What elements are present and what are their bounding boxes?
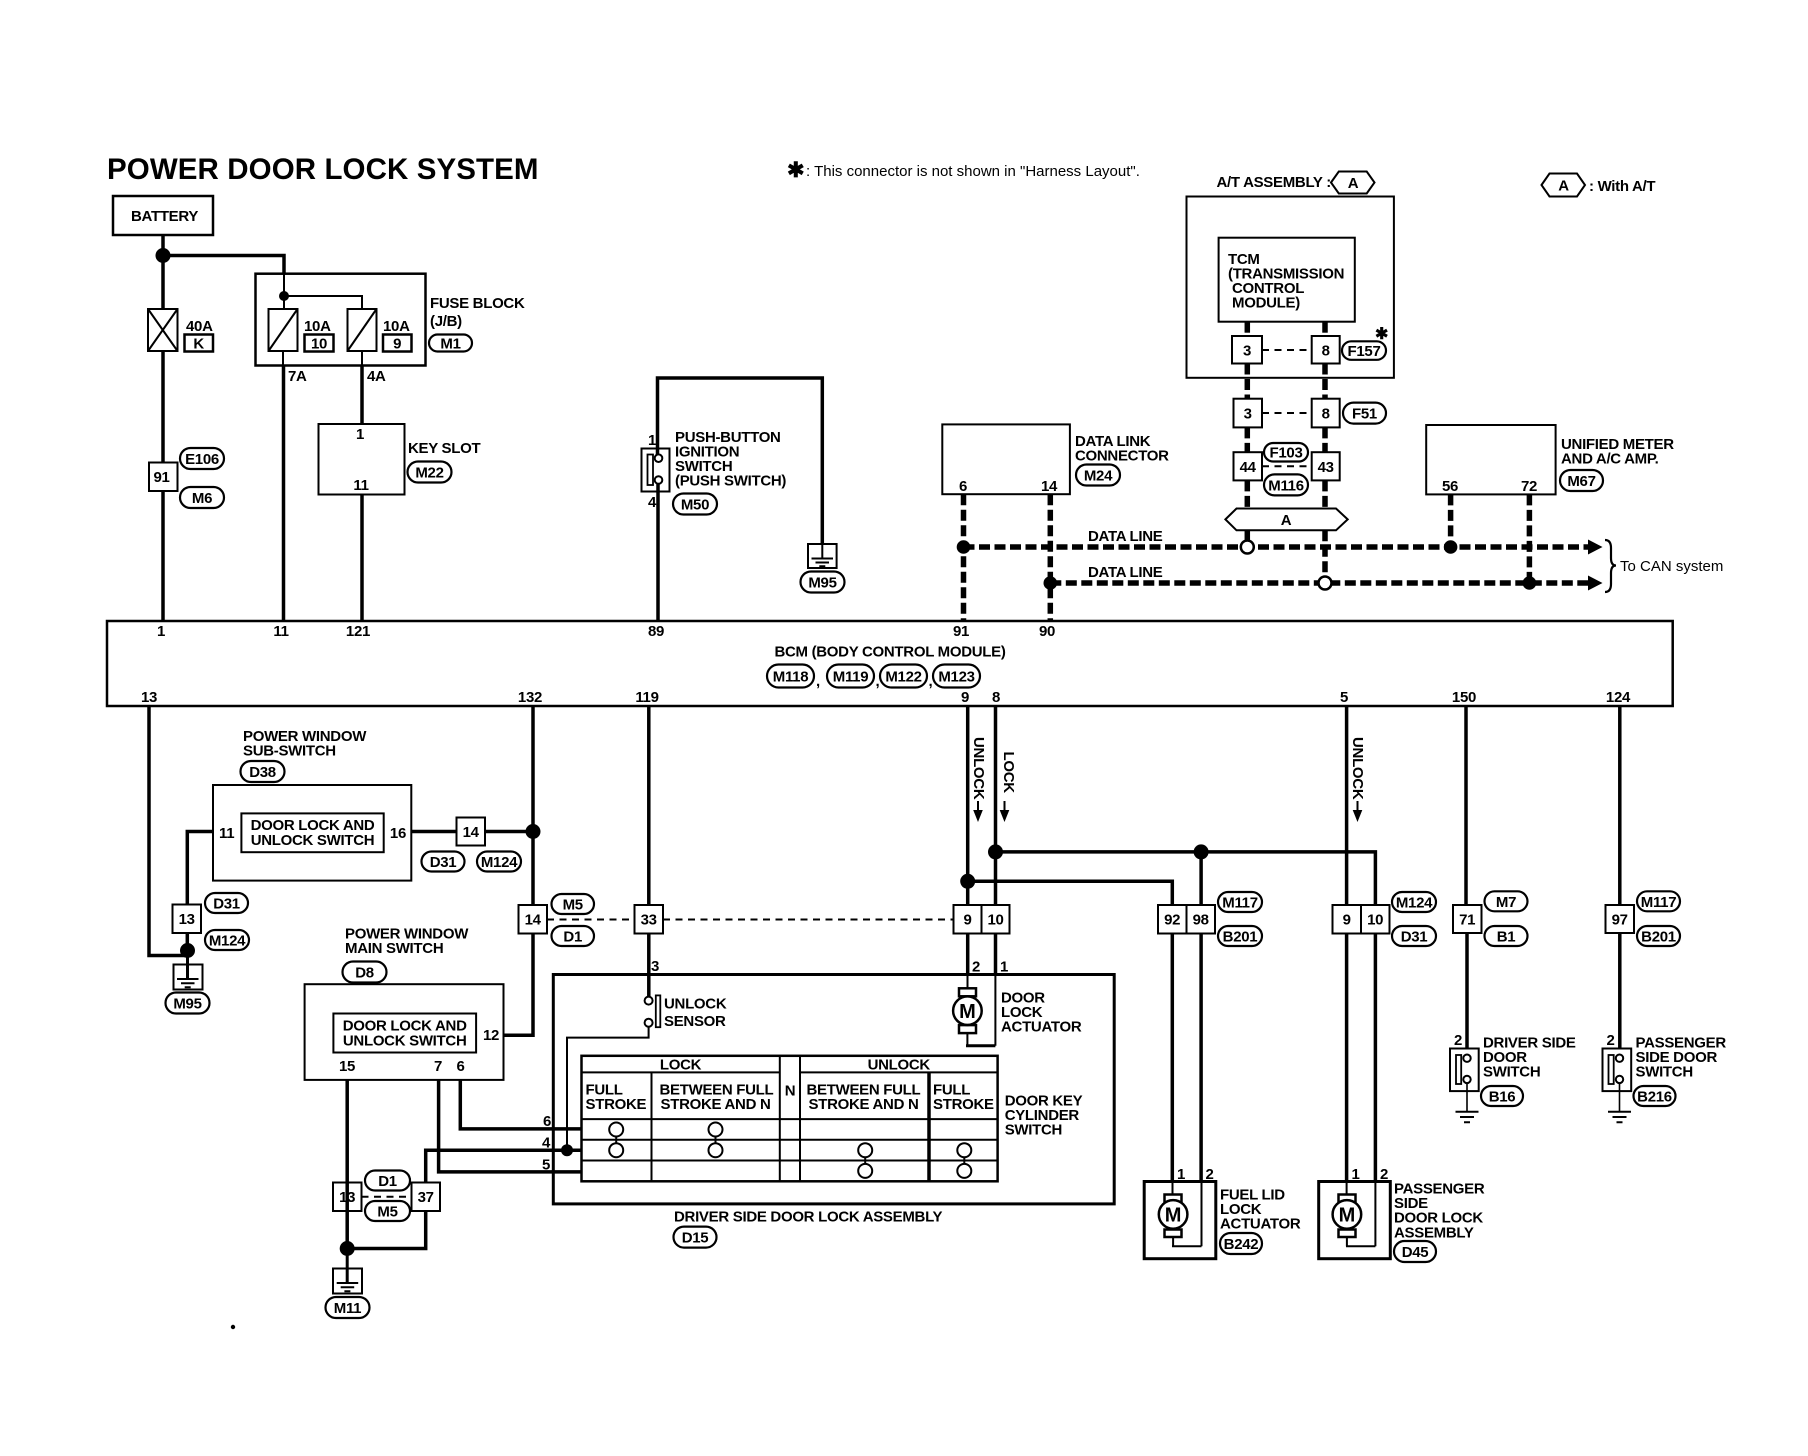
svg-text:B1: B1 xyxy=(1497,929,1516,946)
wire BCM 13 down xyxy=(149,706,188,956)
wire main switch 6 to line 6 xyxy=(460,1080,581,1129)
ground M95 push switch xyxy=(801,544,845,593)
svg-text:STROKE: STROKE xyxy=(933,1096,994,1113)
wire DLC pin 14 to data line and BCM 90 xyxy=(1048,494,1054,621)
passenger side door lock assembly box xyxy=(1319,1182,1391,1259)
svg-text:ASSEMBLY: ASSEMBLY xyxy=(1394,1224,1474,1241)
svg-text:33: 33 xyxy=(641,912,657,929)
wire 97 to passenger door switch xyxy=(1618,933,1622,1049)
connector 91 E106 M6 xyxy=(149,448,224,508)
label POWER WINDOW SUB-SWITCH D38 xyxy=(241,728,368,782)
svg-text:4A: 4A xyxy=(367,368,386,385)
svg-text:8: 8 xyxy=(1322,406,1330,423)
wire 33 to unlock sensor pin 3 xyxy=(647,934,651,997)
hexagon A big xyxy=(1225,509,1347,531)
svg-text:M6: M6 xyxy=(192,490,212,507)
door key cylinder switch table xyxy=(582,1056,998,1182)
svg-text:BATTERY: BATTERY xyxy=(131,208,198,225)
wire 37 down to ground junction xyxy=(347,1211,426,1249)
svg-text:M124: M124 xyxy=(1396,895,1433,912)
unlock sensor xyxy=(645,995,727,1030)
svg-text:B201: B201 xyxy=(1223,929,1258,946)
svg-text:M5: M5 xyxy=(563,897,583,914)
data line lower xyxy=(1050,580,1589,586)
node ground junction left xyxy=(180,943,195,958)
svg-text:M: M xyxy=(1339,1205,1356,1227)
svg-text:M116: M116 xyxy=(1268,477,1304,494)
svg-text:5: 5 xyxy=(1340,689,1348,706)
svg-text:D8: D8 xyxy=(355,965,374,982)
svg-text:BCM (BODY CONTROL MODULE): BCM (BODY CONTROL MODULE) xyxy=(774,644,1005,661)
data link connector box M24 xyxy=(942,424,1169,495)
wire F51-3 to 44 xyxy=(1245,427,1251,452)
svg-text:✱: ✱ xyxy=(1375,326,1388,343)
svg-text:D1: D1 xyxy=(378,1173,397,1190)
svg-text:9: 9 xyxy=(393,336,401,353)
wire fuse2 internal xyxy=(361,351,363,366)
fuse 10A 10 xyxy=(269,309,334,353)
svg-text:F51: F51 xyxy=(1352,406,1377,423)
svg-text:M1: M1 xyxy=(440,336,460,353)
wire F51-8 to 43 xyxy=(1322,427,1328,452)
svg-text:D38: D38 xyxy=(249,764,276,781)
svg-text:40A: 40A xyxy=(186,318,213,335)
svg-text:12: 12 xyxy=(483,1027,499,1044)
svg-text:K: K xyxy=(193,336,204,353)
svg-text:AND A/C AMP.: AND A/C AMP. xyxy=(1561,451,1659,468)
ground M11 xyxy=(326,1249,370,1319)
wire 92 down to fuel lid 1 xyxy=(1171,934,1175,1182)
svg-text:9: 9 xyxy=(961,689,969,706)
wire TCM pin3 to F157 xyxy=(1245,322,1251,336)
svg-text:M24: M24 xyxy=(1084,468,1113,485)
svg-text:N: N xyxy=(785,1083,796,1100)
svg-text:STROKE AND N: STROKE AND N xyxy=(809,1096,919,1113)
node battery junction xyxy=(156,248,171,263)
connector 13 37 D1 M5 bottom xyxy=(333,1171,440,1222)
wire dashed 33 to 9 xyxy=(663,919,954,921)
connector 97 M117 B201 xyxy=(1606,891,1681,946)
wire sub-switch 11 to ground junction xyxy=(187,832,213,905)
svg-text:DATA LINE: DATA LINE xyxy=(1088,564,1163,581)
wire hexagon to lower data line xyxy=(1322,530,1328,580)
svg-text:: This connector is not shown: : This connector is not shown in "Harnes… xyxy=(806,163,1140,180)
label FUSE BLOCK (J/B) M1 xyxy=(429,295,525,353)
wire F157-3 to F51-3 xyxy=(1245,364,1251,399)
svg-text:B242: B242 xyxy=(1224,1236,1259,1253)
svg-text:10: 10 xyxy=(1367,912,1383,929)
svg-text:B201: B201 xyxy=(1641,929,1676,946)
svg-text:150: 150 xyxy=(1452,689,1476,706)
svg-text:ACTUATOR: ACTUATOR xyxy=(1001,1019,1082,1036)
node dot fuel lid 98 junction xyxy=(1194,844,1209,859)
wire TCM pin8 to F157 xyxy=(1322,322,1328,336)
label FUEL LID LOCK ACTUATOR B242 xyxy=(1220,1187,1301,1255)
svg-text:D31: D31 xyxy=(430,854,457,871)
svg-text:11: 11 xyxy=(219,825,234,842)
svg-text:D31: D31 xyxy=(1401,929,1428,946)
svg-text:56: 56 xyxy=(1442,478,1458,495)
wire 7A to BCM pin 11 xyxy=(282,366,286,622)
table contact circles lock between xyxy=(709,1123,723,1158)
svg-text:121: 121 xyxy=(346,623,370,640)
wire main switch 7 to line 5 xyxy=(439,1080,582,1172)
wire meter 72 to lower data line xyxy=(1527,494,1533,580)
wire pin8 dot to passenger 10 xyxy=(996,852,1376,905)
svg-text:,: , xyxy=(929,673,933,690)
svg-text:MODULE): MODULE) xyxy=(1232,295,1300,312)
svg-text:3: 3 xyxy=(1244,406,1252,423)
svg-text:(PUSH SWITCH): (PUSH SWITCH) xyxy=(675,473,786,490)
wire 14 connector to BCM132 wire xyxy=(485,830,533,834)
svg-text:M117: M117 xyxy=(1641,894,1677,911)
svg-text:14: 14 xyxy=(463,824,480,841)
arrow unlock pin5 xyxy=(1357,801,1359,811)
wire pin9 dot to 92 xyxy=(968,881,1173,905)
svg-text:(J/B): (J/B) xyxy=(430,313,462,330)
svg-text:UNLOCK: UNLOCK xyxy=(970,737,987,800)
node dot on pin9 wire xyxy=(960,874,975,889)
svg-text:37: 37 xyxy=(418,1189,434,1206)
wire fuse block internal feed xyxy=(284,274,362,309)
wire BCM 132 down xyxy=(531,706,535,905)
wire push switch to BCM pin 89 xyxy=(656,484,660,621)
svg-text:7: 7 xyxy=(434,1058,442,1075)
wire BCM 9 unlock down xyxy=(966,706,970,905)
fuse 10A 9 xyxy=(348,309,412,353)
wire main switch 12 to BCM132 wire xyxy=(504,934,534,1036)
wire passenger 10 down xyxy=(1374,934,1378,1182)
ground M95 left xyxy=(166,951,210,1014)
connector F51 row boxes 3 8 xyxy=(1234,399,1387,428)
svg-text:1: 1 xyxy=(1000,959,1008,976)
label DOOR KEY CYLINDER SWITCH xyxy=(1005,1093,1083,1139)
connector 14 D31 M124 xyxy=(422,818,522,872)
svg-text:15: 15 xyxy=(339,1058,355,1075)
table contact circles lock full stroke xyxy=(609,1123,623,1158)
node ground junction M11 xyxy=(340,1241,355,1256)
svg-text:DATA LINE: DATA LINE xyxy=(1088,528,1163,545)
wire battery down xyxy=(161,235,165,309)
connector 14 M5 D1 mid xyxy=(519,894,595,946)
svg-text:M22: M22 xyxy=(415,465,443,482)
svg-text:71: 71 xyxy=(1459,912,1475,929)
connector 9 10 driver xyxy=(954,905,1010,934)
svg-text:M11: M11 xyxy=(334,1300,361,1317)
svg-text:2: 2 xyxy=(972,959,980,976)
svg-text:91: 91 xyxy=(953,623,969,640)
svg-text:44: 44 xyxy=(1240,459,1257,476)
wire 44 to hexagon xyxy=(1245,480,1251,508)
svg-text:1: 1 xyxy=(157,623,165,640)
svg-text:LOCK: LOCK xyxy=(1000,752,1017,794)
svg-text:10: 10 xyxy=(311,336,327,353)
svg-text:1: 1 xyxy=(648,432,656,449)
svg-text:A: A xyxy=(1558,178,1569,195)
wire sub-switch 16 to 14 connector xyxy=(411,830,456,834)
connector 9 10 passenger M124 D31 xyxy=(1333,892,1437,946)
svg-text:16: 16 xyxy=(390,825,406,842)
label DRIVER SIDE DOOR LOCK ASSEMBLY D15 xyxy=(674,1209,943,1248)
wire fuse1 internal xyxy=(282,351,284,366)
svg-text:98: 98 xyxy=(1193,912,1209,929)
svg-text:M117: M117 xyxy=(1222,895,1258,912)
svg-text:F103: F103 xyxy=(1270,445,1303,462)
svg-text:M50: M50 xyxy=(681,497,709,514)
connector F157 row boxes 3 8 xyxy=(1232,326,1388,364)
battery BATTERY xyxy=(113,196,213,235)
power window sub-switch box xyxy=(213,785,411,881)
svg-text:SWITCH: SWITCH xyxy=(1483,1064,1540,1081)
svg-text:SUB-SWITCH: SUB-SWITCH xyxy=(243,743,336,760)
wire 9 to actuator pin2 xyxy=(966,934,970,975)
wire BCM 150 down xyxy=(1464,706,1468,905)
key slot box M22 xyxy=(319,424,481,495)
label POWER WINDOW MAIN SWITCH D8 xyxy=(343,926,470,983)
svg-text:CONNECTOR: CONNECTOR xyxy=(1075,448,1169,465)
svg-text:6: 6 xyxy=(959,478,967,495)
svg-text:M123: M123 xyxy=(938,669,974,686)
svg-text:10A: 10A xyxy=(383,318,410,335)
node dot 72 on lower line xyxy=(1523,576,1537,590)
svg-text:14: 14 xyxy=(1041,478,1058,495)
svg-text:D1: D1 xyxy=(563,929,582,946)
svg-text:DRIVER SIDE DOOR LOCK ASSEMBLY: DRIVER SIDE DOOR LOCK ASSEMBLY xyxy=(674,1209,943,1226)
svg-text:6: 6 xyxy=(456,1058,464,1075)
sub-switch inner door lock and unlock switch xyxy=(241,813,383,852)
svg-text:4: 4 xyxy=(542,1135,551,1152)
svg-text:STROKE AND N: STROKE AND N xyxy=(661,1096,771,1113)
svg-text:M119: M119 xyxy=(833,669,869,686)
connector 33 xyxy=(635,905,664,934)
svg-text:D15: D15 xyxy=(682,1230,709,1247)
svg-text:124: 124 xyxy=(1606,689,1631,706)
svg-text:13: 13 xyxy=(141,689,157,706)
svg-text:D31: D31 xyxy=(213,896,240,913)
svg-text:UNLOCK: UNLOCK xyxy=(1349,737,1366,800)
svg-text:132: 132 xyxy=(518,689,542,706)
svg-text:119: 119 xyxy=(635,689,658,706)
svg-text:,: , xyxy=(876,673,880,690)
svg-text:M122: M122 xyxy=(885,669,921,686)
svg-text:3: 3 xyxy=(1243,343,1251,360)
svg-text:F157: F157 xyxy=(1348,343,1381,360)
svg-text:D45: D45 xyxy=(1402,1244,1429,1261)
svg-text:9: 9 xyxy=(1343,912,1351,929)
svg-text:FUSE BLOCK: FUSE BLOCK xyxy=(430,295,525,312)
svg-text:M95: M95 xyxy=(173,996,201,1013)
svg-text:8: 8 xyxy=(1322,343,1330,360)
wire F157-8 to F51-8 xyxy=(1322,364,1328,399)
node dot 56 on upper line xyxy=(1444,540,1458,554)
svg-text:10: 10 xyxy=(987,912,1003,929)
passenger side door switch B216 xyxy=(1603,1035,1727,1123)
wire DLC pin 6 to data line and BCM 91 xyxy=(961,494,967,621)
push-button ignition switch M50 xyxy=(642,429,787,515)
wire BCM 5 unlock down xyxy=(1345,706,1349,905)
svg-text:UNLOCK SWITCH: UNLOCK SWITCH xyxy=(251,832,375,849)
svg-text:ACTUATOR: ACTUATOR xyxy=(1220,1216,1301,1233)
wire dashed 14 to 33 xyxy=(547,919,635,921)
svg-text:1: 1 xyxy=(356,426,364,443)
TCM box xyxy=(1219,238,1355,322)
wire 10 to actuator pin1 xyxy=(994,934,998,975)
svg-text:M5: M5 xyxy=(377,1204,397,1221)
svg-text:2: 2 xyxy=(1606,1032,1614,1049)
wire 98 down to fuel lid 2 xyxy=(1199,934,1203,1182)
svg-text:,: , xyxy=(816,673,820,690)
svg-text:9: 9 xyxy=(963,912,971,929)
wire BCM 119 down xyxy=(647,706,651,905)
fuse block J/B box xyxy=(256,274,426,366)
svg-text:MAIN SWITCH: MAIN SWITCH xyxy=(345,940,443,957)
svg-text:2: 2 xyxy=(1454,1032,1462,1049)
arrow upper data line xyxy=(1588,540,1603,555)
svg-text:7A: 7A xyxy=(288,368,307,385)
legend hexagon A : With A/T xyxy=(1542,174,1656,197)
wire 37 connector to line 4 xyxy=(426,1150,582,1182)
node junction on line 4 xyxy=(561,1144,573,1156)
BCM body control module bar xyxy=(107,621,1673,706)
wire dot to 98 xyxy=(1199,852,1203,905)
svg-text:SWITCH: SWITCH xyxy=(1636,1064,1693,1081)
label A/T ASSEMBLY hexagon A xyxy=(1217,172,1375,194)
svg-text:11: 11 xyxy=(353,477,368,494)
svg-text:43: 43 xyxy=(1318,459,1334,476)
wire hexagon to upper data line xyxy=(1245,530,1251,544)
svg-text:M67: M67 xyxy=(1567,473,1595,490)
svg-text:E106: E106 xyxy=(185,451,219,468)
node dot DLC6 on upper line xyxy=(957,540,971,554)
svg-text:M124: M124 xyxy=(209,933,246,950)
node junction on BCM132 wire xyxy=(526,824,541,839)
power window main switch box xyxy=(305,984,504,1080)
svg-text:3: 3 xyxy=(651,958,659,975)
svg-text:M: M xyxy=(959,1001,976,1023)
node dot on pin8 wire xyxy=(988,844,1003,859)
wire BCM 8 lock down xyxy=(994,706,998,905)
wire 13 connector to ground junction xyxy=(186,933,190,956)
svg-text:8: 8 xyxy=(992,689,1000,706)
fuse 40A K xyxy=(148,309,213,353)
stray period mark xyxy=(231,1325,235,1329)
wire meter 56 to upper data line xyxy=(1448,494,1454,544)
svg-text:SWITCH: SWITCH xyxy=(1005,1122,1062,1139)
svg-text:92: 92 xyxy=(1164,912,1180,929)
connector ovals M118 M119 M122 M123 xyxy=(767,665,980,691)
svg-text:To CAN system: To CAN system xyxy=(1620,558,1723,575)
svg-text:M: M xyxy=(1165,1205,1182,1227)
label PASSENGER SIDE DOOR LOCK ASSEMBLY D45 xyxy=(1394,1181,1485,1263)
svg-text:A/T ASSEMBLY :: A/T ASSEMBLY : xyxy=(1217,174,1331,191)
wire push switch loop to ground xyxy=(658,378,823,544)
svg-text:4: 4 xyxy=(648,494,657,511)
connector 92 98 M117 B201 xyxy=(1158,892,1262,946)
svg-text:KEY SLOT: KEY SLOT xyxy=(408,440,480,457)
svg-text:14: 14 xyxy=(525,912,542,929)
svg-text:89: 89 xyxy=(648,623,664,640)
svg-text:LOCK: LOCK xyxy=(660,1057,702,1074)
svg-text:M95: M95 xyxy=(808,575,836,592)
driver side door lock assembly box xyxy=(553,975,1114,1204)
svg-text:UNLOCK: UNLOCK xyxy=(868,1057,931,1074)
node open circle on lower data line xyxy=(1319,577,1332,590)
svg-text:UNLOCK: UNLOCK xyxy=(664,996,727,1013)
wire 43 to hexagon xyxy=(1322,480,1328,508)
svg-text:91: 91 xyxy=(153,469,169,486)
arrow lock pin8 xyxy=(1004,801,1006,811)
svg-text:5: 5 xyxy=(542,1157,550,1174)
svg-text:B16: B16 xyxy=(1489,1089,1516,1106)
A/T assembly box xyxy=(1187,197,1394,378)
table contact circles unlock between xyxy=(858,1143,872,1178)
svg-text:72: 72 xyxy=(1521,478,1537,495)
unified meter box M67 xyxy=(1426,425,1674,495)
svg-text:11: 11 xyxy=(273,623,288,640)
wire connector 91 to BCM pin 1 xyxy=(161,491,165,621)
svg-text:: With A/T: : With A/T xyxy=(1589,178,1655,195)
svg-text:UNLOCK SWITCH: UNLOCK SWITCH xyxy=(343,1033,467,1050)
svg-text:M118: M118 xyxy=(773,669,809,686)
connector 71 M7 B1 xyxy=(1453,891,1528,946)
svg-text:M7: M7 xyxy=(1496,894,1516,911)
data line upper xyxy=(964,544,1590,550)
arrow lower data line xyxy=(1588,576,1603,591)
svg-text:STROKE: STROKE xyxy=(586,1096,647,1113)
wire battery to fuse block xyxy=(163,256,284,274)
door lock actuator motor driver xyxy=(953,975,1082,1046)
node dot DLC14 on lower line xyxy=(1044,576,1058,590)
wire unlock sensor to line 4 xyxy=(567,1027,649,1151)
svg-text:10A: 10A xyxy=(304,318,331,335)
node open circle on upper data line xyxy=(1241,541,1254,554)
svg-text:97: 97 xyxy=(1612,912,1628,929)
wire passenger 9 down xyxy=(1345,934,1349,1182)
svg-text:✱: ✱ xyxy=(787,159,805,182)
svg-text:B216: B216 xyxy=(1637,1089,1672,1106)
svg-text:13: 13 xyxy=(339,1189,355,1206)
svg-text:A: A xyxy=(1281,512,1292,529)
wire 71 to driver door switch xyxy=(1465,933,1469,1049)
svg-text:M124: M124 xyxy=(481,854,518,871)
table contact circles unlock full stroke xyxy=(957,1143,971,1178)
svg-text:SENSOR: SENSOR xyxy=(664,1013,726,1030)
svg-text:POWER DOOR LOCK SYSTEM: POWER DOOR LOCK SYSTEM xyxy=(107,153,539,186)
arrow unlock pin9 xyxy=(977,801,979,811)
svg-text:A: A xyxy=(1348,175,1359,192)
driver side door switch B16 xyxy=(1450,1035,1576,1123)
svg-text:90: 90 xyxy=(1039,623,1055,640)
fuel lid lock actuator box xyxy=(1144,1182,1216,1259)
wire main switch 15 down to ground xyxy=(345,1080,349,1249)
connector row 44 43 F103 M116 xyxy=(1234,443,1340,495)
svg-text:6: 6 xyxy=(543,1113,551,1130)
connector 13 D31 M124 left xyxy=(173,893,250,950)
wire 40A fuse to connector 91 xyxy=(161,351,165,463)
wire BCM 124 down xyxy=(1618,706,1622,905)
svg-text:13: 13 xyxy=(179,911,195,928)
node fuse block feed junction xyxy=(279,291,289,301)
wire 4A to key slot xyxy=(360,366,364,425)
wire key slot to BCM pin 121 xyxy=(360,495,364,622)
brace to CAN xyxy=(1605,540,1616,592)
main switch inner door lock and unlock switch xyxy=(333,1014,476,1053)
